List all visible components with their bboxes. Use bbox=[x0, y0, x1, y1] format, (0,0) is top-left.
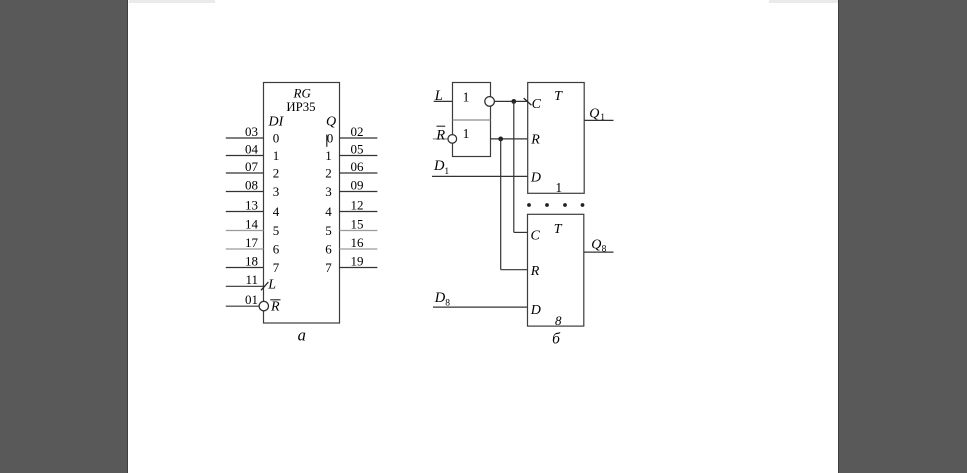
svg-text:5: 5 bbox=[325, 223, 332, 238]
junction on C net bbox=[511, 99, 516, 104]
inversion bubble at R pin bbox=[259, 301, 268, 310]
svg-text:12: 12 bbox=[351, 198, 364, 213]
svg-text:07: 07 bbox=[245, 159, 259, 174]
svg-text:08: 08 bbox=[245, 178, 258, 193]
svg-text:1: 1 bbox=[444, 167, 449, 177]
right gray margin bbox=[838, 0, 967, 473]
wire: input pin 07 stub (left) bbox=[226, 172, 264, 174]
pin label 0 (Q side, glyph artifact with stem) bbox=[327, 131, 334, 147]
svg-text:DI: DI bbox=[268, 115, 285, 130]
svg-text:C: C bbox=[532, 97, 542, 112]
junction on R net bbox=[498, 137, 503, 142]
wire: output pin 02 stub (right) bbox=[340, 137, 378, 139]
svg-text:1: 1 bbox=[600, 113, 605, 123]
wire: input pin 03 stub (left) bbox=[226, 137, 264, 139]
svg-text:б: б bbox=[552, 331, 561, 348]
wire: U2.2 output to R of T1 bbox=[491, 138, 528, 140]
svg-text:7: 7 bbox=[273, 260, 280, 275]
wire: input pin 14 stub (left) bbox=[226, 230, 264, 232]
svg-text:1: 1 bbox=[325, 148, 332, 163]
svg-text:R: R bbox=[530, 264, 540, 279]
wire: output pin 09 stub (right) bbox=[340, 191, 378, 193]
svg-text:6: 6 bbox=[273, 242, 280, 257]
net D8 (input wire to D of T8) bbox=[433, 306, 528, 308]
wire: pin 11 stub (L input) bbox=[226, 285, 264, 287]
svg-text:D: D bbox=[530, 170, 541, 185]
svg-text:01: 01 bbox=[245, 292, 258, 307]
left gray margin bbox=[0, 0, 128, 473]
svg-text:1: 1 bbox=[463, 126, 470, 141]
svg-text:L: L bbox=[267, 277, 276, 292]
svg-text:C: C bbox=[531, 228, 541, 243]
svg-text:2: 2 bbox=[325, 166, 332, 181]
wire: input pin 18 stub (left) bbox=[226, 267, 264, 269]
svg-text:0: 0 bbox=[273, 131, 280, 146]
svg-text:a: a bbox=[298, 326, 306, 345]
svg-text:1: 1 bbox=[555, 180, 562, 195]
wire: output pin 15 stub (right) bbox=[340, 230, 378, 232]
svg-text:2: 2 bbox=[273, 166, 280, 181]
wire: Q1 output bbox=[584, 119, 613, 121]
svg-text:7: 7 bbox=[325, 260, 332, 275]
svg-text:8: 8 bbox=[602, 245, 607, 255]
svg-text:14: 14 bbox=[245, 217, 259, 232]
register U1 box (RG IR35) bbox=[264, 83, 340, 324]
svg-text:4: 4 bbox=[325, 204, 332, 219]
svg-text:15: 15 bbox=[351, 217, 364, 232]
net L (input wire) bbox=[434, 100, 453, 102]
svg-text:03: 03 bbox=[245, 124, 258, 139]
svg-text:05: 05 bbox=[351, 142, 364, 157]
top light strip right bbox=[769, 0, 838, 3]
wire: R net to R of T8 bbox=[501, 269, 528, 271]
net D1 (input wire to D of T1) bbox=[432, 175, 528, 177]
wire: output pin 19 stub (right) bbox=[340, 267, 378, 269]
svg-text:13: 13 bbox=[245, 198, 258, 213]
svg-text:11: 11 bbox=[245, 272, 258, 287]
svg-text:0: 0 bbox=[327, 131, 334, 146]
svg-text:ИР35: ИР35 bbox=[286, 100, 315, 114]
dynamic-input tick at C of T1 bbox=[524, 98, 532, 105]
svg-text:8: 8 bbox=[555, 313, 562, 328]
dynamic-input tick at L pin bbox=[261, 282, 268, 290]
wire: C net to C of T8 bbox=[514, 231, 528, 233]
wire: input pin 17 stub (left) bbox=[226, 248, 264, 250]
svg-text:Q: Q bbox=[326, 115, 336, 130]
svg-text:09: 09 bbox=[351, 178, 364, 193]
svg-text:L: L bbox=[434, 88, 443, 104]
svg-text:3: 3 bbox=[273, 184, 280, 199]
wire: input pin 08 stub (left) bbox=[226, 191, 264, 193]
svg-text:5: 5 bbox=[273, 223, 280, 238]
inversion bubble at U2.2 input bbox=[448, 135, 457, 144]
svg-text:D: D bbox=[433, 158, 445, 174]
svg-text:3: 3 bbox=[325, 184, 332, 199]
svg-text:04: 04 bbox=[245, 142, 259, 157]
wire: output pin 05 stub (right) bbox=[340, 155, 378, 157]
svg-text:16: 16 bbox=[351, 235, 365, 250]
wire: input pin 13 stub (left) bbox=[226, 211, 264, 213]
svg-text:R: R bbox=[270, 299, 280, 314]
T flip-flop T8 box bbox=[528, 214, 584, 326]
wire: output pin 06 stub (right) bbox=[340, 172, 378, 174]
svg-text:6: 6 bbox=[325, 242, 332, 257]
svg-text:18: 18 bbox=[245, 254, 258, 269]
svg-text:Q: Q bbox=[591, 237, 601, 252]
wire: Q8 output bbox=[584, 251, 614, 253]
wire: U2.1 output to C of T1 bbox=[494, 100, 527, 102]
wire: R net vertical run down bbox=[500, 139, 502, 270]
svg-text:8: 8 bbox=[445, 299, 450, 309]
top light strip left bbox=[129, 0, 215, 3]
svg-text:R: R bbox=[530, 132, 540, 147]
net R-bar (input wire) bbox=[433, 138, 449, 140]
T flip-flop T1 box bbox=[528, 83, 585, 194]
svg-text:4: 4 bbox=[273, 204, 280, 219]
svg-text:D: D bbox=[530, 303, 541, 318]
svg-text:1: 1 bbox=[273, 148, 280, 163]
svg-text:D: D bbox=[434, 290, 446, 306]
inversion bubble at U2.1 output bbox=[485, 97, 495, 107]
svg-text:T: T bbox=[554, 222, 563, 237]
svg-text:19: 19 bbox=[351, 254, 364, 269]
svg-text:RG: RG bbox=[293, 86, 312, 101]
wire: C net vertical run down bbox=[513, 101, 515, 232]
svg-text:1: 1 bbox=[463, 90, 470, 105]
svg-text:R: R bbox=[435, 128, 445, 144]
svg-text:02: 02 bbox=[351, 124, 364, 139]
wire: output pin 16 stub (right) bbox=[340, 248, 378, 250]
wire: input pin 04 stub (left) bbox=[226, 155, 264, 157]
wire: pin 01 stub (R input) bbox=[226, 305, 259, 307]
svg-text:17: 17 bbox=[245, 235, 259, 250]
svg-text:T: T bbox=[554, 89, 563, 104]
OR-gate pair U2 box (two sections "1") bbox=[453, 83, 491, 157]
svg-text:06: 06 bbox=[351, 159, 365, 174]
ellipsis dots between T1 and T8 bbox=[527, 203, 584, 207]
svg-text:Q: Q bbox=[589, 107, 599, 122]
wire: output pin 12 stub (right) bbox=[340, 211, 378, 213]
